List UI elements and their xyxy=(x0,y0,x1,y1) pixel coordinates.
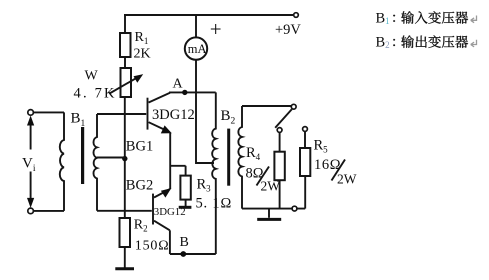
wire B1 center tap xyxy=(97,157,125,159)
potentiometer W xyxy=(110,68,144,97)
svg-text:5. 1Ω: 5. 1Ω xyxy=(196,196,233,212)
node bias junction dot xyxy=(122,156,127,161)
label R5 16ohm 2W xyxy=(314,138,357,187)
resistor R5 xyxy=(300,131,310,208)
transformer B1 primary coil xyxy=(60,112,64,210)
wire output bottom rail xyxy=(242,208,305,210)
wire emitters junction xyxy=(169,133,171,190)
node A dot xyxy=(182,90,187,95)
transistor BG2 xyxy=(153,188,171,230)
svg-text:BG2: BG2 xyxy=(126,178,153,194)
svg-text:W: W xyxy=(85,69,99,84)
resistor R4 xyxy=(274,132,284,208)
svg-text:R2: R2 xyxy=(134,218,148,234)
svg-text:BG1: BG1 xyxy=(126,138,153,154)
svg-text:3DG12: 3DG12 xyxy=(154,206,186,218)
svg-text:R5: R5 xyxy=(314,138,329,155)
wire R1 top lead xyxy=(124,15,126,33)
svg-text:2K: 2K xyxy=(134,47,151,62)
wire B2 secondary top to switch xyxy=(242,105,292,107)
transformer B2 core xyxy=(227,129,230,186)
svg-text:B1: B1 xyxy=(376,10,390,26)
svg-text:+9V: +9V xyxy=(275,22,301,38)
svg-text:150Ω: 150Ω xyxy=(135,239,170,254)
transformer B1 core xyxy=(81,127,84,184)
wire meter to B2 center tap xyxy=(196,60,214,163)
terminal jack on rail xyxy=(292,206,297,211)
meter mA xyxy=(185,37,207,59)
svg-text:2W: 2W xyxy=(337,172,357,187)
wire R1 to W xyxy=(124,57,126,68)
switch S common terminal xyxy=(291,104,296,109)
terminal input bottom xyxy=(28,208,34,214)
svg-text:R4: R4 xyxy=(246,145,261,162)
transformer B2 secondary coil xyxy=(238,106,242,209)
svg-text:R1: R1 xyxy=(135,30,149,46)
transformer B1 secondary coil xyxy=(93,114,97,211)
svg-text:A: A xyxy=(173,77,184,92)
wire node B line xyxy=(170,253,216,255)
resistor R3 xyxy=(180,176,190,207)
transformer B2 primary coil xyxy=(212,92,216,254)
svg-text:3DG12: 3DG12 xyxy=(152,107,195,123)
transistor BG1 xyxy=(148,93,172,134)
resistor R2 xyxy=(120,218,131,268)
svg-text:+: + xyxy=(210,17,222,41)
wire bias W to R2 xyxy=(124,97,126,218)
svg-text:2W: 2W xyxy=(261,179,281,194)
terminal +9V xyxy=(294,13,299,18)
svg-text:B: B xyxy=(180,235,189,250)
svg-text:mA: mA xyxy=(188,42,207,56)
terminal R4 top xyxy=(277,128,282,133)
wire meter top lead xyxy=(195,15,197,37)
wire BG1 base lead from B1 xyxy=(97,113,146,115)
wire BG2 base lead from B1 xyxy=(97,210,152,212)
label note B2 output transformer xyxy=(376,35,477,51)
svg-text:B2: B2 xyxy=(221,108,236,127)
label note B1 input transformer xyxy=(376,10,477,26)
label R4 8ohm 2W xyxy=(246,145,281,194)
wire BG2 collector drop xyxy=(169,230,171,254)
terminal input top xyxy=(28,110,34,116)
node B dot xyxy=(180,251,186,257)
ground under R3 xyxy=(179,206,192,209)
terminal R5 top xyxy=(303,127,308,132)
switch S blade xyxy=(275,109,292,128)
svg-text:B1: B1 xyxy=(71,110,86,129)
svg-text:4. 7K: 4. 7K xyxy=(74,86,117,102)
source Vi arrow xyxy=(21,116,42,208)
wire input top xyxy=(34,111,65,113)
svg-text:B2: B2 xyxy=(376,35,390,51)
ground output rail xyxy=(257,209,281,220)
wire emitter to R3 xyxy=(170,166,185,176)
wire node A line to B2 xyxy=(169,91,216,93)
svg-text:R3: R3 xyxy=(197,177,212,194)
wire +9V top rail xyxy=(124,14,294,16)
wire input bottom xyxy=(34,210,65,212)
ground under R2 xyxy=(115,267,134,270)
resistor R1 xyxy=(120,33,131,57)
